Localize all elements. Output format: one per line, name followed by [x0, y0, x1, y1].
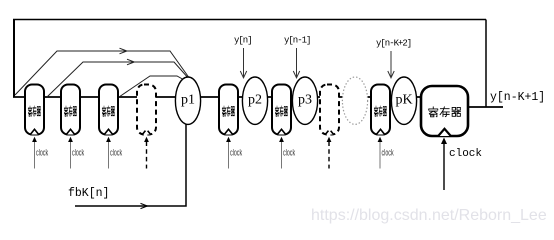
svg-text:https://blog.csdn.net/Reborn_L: https://blog.csdn.net/Reborn_Lee	[311, 207, 547, 224]
register R2 (寄存器)	[61, 85, 80, 135]
register R7 (寄存器 dashed)	[320, 85, 339, 135]
wire: output line	[468, 106, 503, 108]
clock input line	[327, 137, 332, 169]
svg-text:clock: clock	[449, 148, 482, 160]
wire: bypass path C	[119, 76, 186, 97]
clock input line	[279, 137, 295, 169]
clock input line	[226, 137, 242, 169]
register R6 (寄存器)	[272, 85, 291, 135]
arrow y[n-K+2]	[388, 51, 394, 78]
wire: right feedback vertical	[485, 20, 487, 108]
op ellipse ellipsis	[342, 77, 367, 124]
arrow y[n-1]	[293, 48, 299, 78]
register R3 (寄存器)	[99, 85, 118, 135]
svg-text:clock: clock	[230, 147, 242, 158]
svg-text:p2: p2	[248, 93, 262, 108]
wire: fbK[n] input	[75, 124, 186, 206]
clock input line	[378, 137, 394, 169]
svg-text:clock: clock	[72, 147, 84, 158]
wire: bypass path B	[47, 62, 190, 97]
svg-text:fbK[n]: fbK[n]	[68, 187, 109, 200]
register R1 (寄存器)	[25, 85, 44, 135]
arrowhead on bypass B	[127, 59, 134, 65]
op ellipse p3	[292, 77, 317, 124]
svg-text:y[n-K+2]: y[n-K+2]	[376, 39, 411, 49]
svg-text:clock: clock	[110, 147, 122, 158]
clock input line	[32, 137, 48, 169]
clock input big register	[441, 138, 482, 191]
op ellipse p2	[242, 77, 267, 124]
register RK (寄存器 output register)	[421, 86, 468, 136]
arrowhead on bypass A	[120, 48, 127, 54]
op ellipse p1	[175, 77, 200, 124]
wire: left feedback vertical	[13, 20, 15, 98]
clock input line	[144, 137, 149, 169]
svg-text:clock: clock	[381, 147, 393, 158]
svg-text:pK: pK	[395, 93, 412, 108]
svg-text:y[n]: y[n]	[234, 36, 252, 46]
svg-text:y[n-1]: y[n-1]	[284, 36, 310, 46]
arrow y[n]	[240, 48, 246, 78]
op ellipse pK	[391, 77, 416, 124]
svg-text:clock: clock	[283, 147, 295, 158]
arrowhead fbK	[141, 203, 148, 208]
clock input line	[68, 137, 84, 169]
register R5 (寄存器)	[219, 85, 238, 135]
clock input line	[106, 137, 122, 169]
wire: main signal line	[13, 96, 421, 98]
wire: top feedback horizontal	[13, 19, 486, 21]
register R8 (寄存器)	[371, 85, 390, 135]
wire: bypass path A	[15, 51, 190, 95]
svg-text:clock: clock	[36, 147, 48, 158]
register R4 (寄存器 dashed)	[137, 85, 156, 135]
svg-text:p3: p3	[298, 93, 312, 108]
svg-text:p1: p1	[181, 93, 195, 108]
svg-text:y[n-K+1]: y[n-K+1]	[490, 91, 545, 104]
